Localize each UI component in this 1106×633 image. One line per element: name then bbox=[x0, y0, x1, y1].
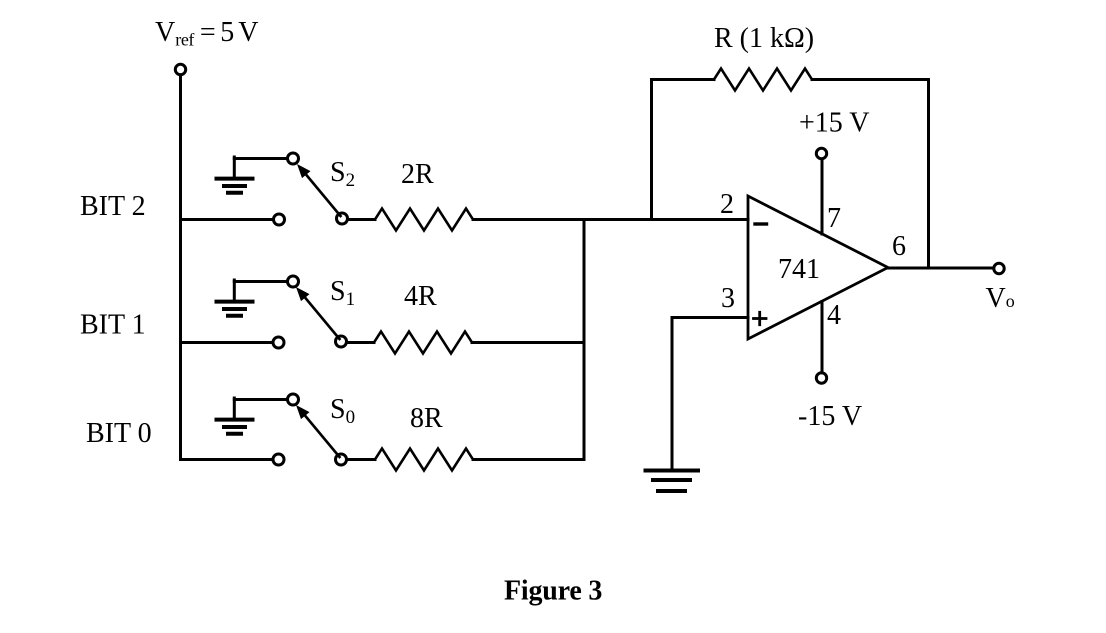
ground op-amp bbox=[644, 471, 701, 492]
svg-text:7: 7 bbox=[827, 203, 841, 234]
wire 2R to op-amp inverting input bbox=[473, 218, 748, 221]
node BIT 0 contact bbox=[273, 454, 284, 465]
resistor 4R bbox=[374, 332, 472, 354]
svg-text:3: 3 bbox=[721, 283, 735, 314]
terminal +15V bbox=[816, 148, 826, 158]
svg-text:Figure 3: Figure 3 bbox=[504, 576, 602, 607]
svg-text:4: 4 bbox=[827, 300, 841, 331]
svg-text:BIT 1: BIT 1 bbox=[80, 310, 146, 341]
svg-text:Vo: Vo bbox=[986, 283, 1015, 314]
op-amp U1 741 bbox=[748, 196, 888, 339]
svg-text:BIT 2: BIT 2 bbox=[80, 191, 146, 222]
op-amp minus input sign bbox=[755, 222, 767, 225]
wire BIT 1 line bbox=[181, 341, 273, 344]
svg-text:BIT 0: BIT 0 bbox=[86, 418, 152, 449]
wire pin7 supply bbox=[821, 159, 824, 234]
svg-text:6: 6 bbox=[892, 231, 906, 262]
resistor 8R bbox=[375, 449, 473, 471]
resistor 2R bbox=[375, 209, 473, 231]
op-amp plus input sign bbox=[754, 312, 767, 324]
ground for switch S1 bbox=[215, 280, 288, 316]
svg-text:4R: 4R bbox=[404, 281, 437, 312]
wire BIT 2 line bbox=[181, 218, 274, 221]
wire S2 to resistor bbox=[348, 218, 376, 221]
svg-text:741: 741 bbox=[778, 254, 820, 285]
switch S1 bbox=[288, 276, 347, 347]
svg-text:Vref = 5 V: Vref = 5 V bbox=[155, 17, 258, 50]
wire pin3 non-inverting input bbox=[672, 318, 748, 469]
svg-text:2: 2 bbox=[720, 189, 734, 220]
wire output bbox=[888, 267, 994, 270]
svg-text:S2: S2 bbox=[330, 157, 355, 191]
wire feedback left vertical bbox=[652, 80, 715, 220]
terminal Vo bbox=[994, 263, 1004, 273]
ground for switch S0 bbox=[215, 398, 288, 434]
wire feedback top right bbox=[812, 80, 929, 269]
node BIT 1 contact bbox=[273, 337, 284, 348]
svg-text:+15 V: +15 V bbox=[799, 108, 870, 139]
ground for switch S2 bbox=[215, 157, 288, 193]
wire Vref vertical bus bbox=[179, 75, 182, 460]
svg-text:8R: 8R bbox=[410, 403, 443, 434]
wire S1 to resistor bbox=[347, 341, 375, 344]
wire pin4 supply bbox=[821, 302, 824, 373]
switch S2 bbox=[288, 153, 348, 224]
terminal Vref bbox=[175, 64, 185, 74]
resistor R feedback bbox=[714, 69, 812, 91]
svg-text:-15 V: -15 V bbox=[798, 401, 862, 432]
wire BIT 0 line bbox=[181, 458, 273, 461]
terminal -15V bbox=[816, 373, 826, 383]
wire 4R to summing bus bbox=[472, 341, 584, 344]
svg-text:R (1 kΩ): R (1 kΩ) bbox=[714, 23, 814, 54]
node BIT 2 contact bbox=[274, 214, 285, 225]
svg-text:2R: 2R bbox=[401, 159, 434, 190]
wire summing bus bbox=[583, 220, 586, 460]
svg-text:S0: S0 bbox=[330, 394, 355, 428]
wire S0 to resistor bbox=[347, 458, 376, 461]
switch S0 bbox=[288, 394, 347, 465]
wire 8R to summing bus bbox=[473, 458, 584, 461]
svg-text:S1: S1 bbox=[330, 276, 355, 310]
